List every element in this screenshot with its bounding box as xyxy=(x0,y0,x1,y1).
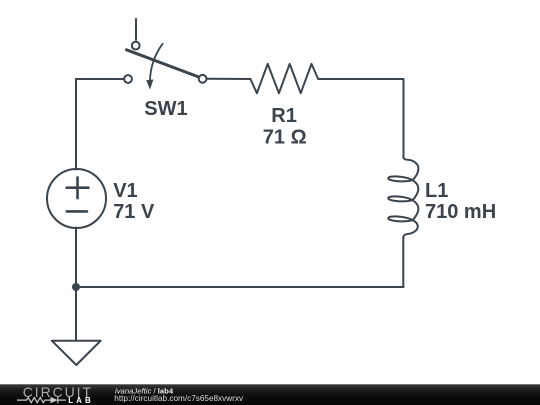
ground xyxy=(52,341,101,365)
wire junction to ground xyxy=(75,287,77,341)
logo squiggle resistor+diode xyxy=(17,397,66,403)
wire switch right to resistor xyxy=(207,78,250,80)
logo diode triangle xyxy=(51,397,58,403)
svg-text:710 mH: 710 mH xyxy=(425,201,496,223)
switch SW1 xyxy=(124,42,206,90)
svg-text:71 V: 71 V xyxy=(113,201,155,223)
wire left vertical to V1 xyxy=(75,79,77,170)
svg-text:71 Ω: 71 Ω xyxy=(263,127,307,149)
footer bar xyxy=(0,384,540,405)
svg-text:V1: V1 xyxy=(113,180,137,202)
wire right vertical to inductor xyxy=(403,79,405,157)
resistor R1 xyxy=(250,64,318,93)
wire switch left to corner xyxy=(76,78,123,80)
wire resistor to top-right corner xyxy=(318,78,403,80)
voltage source V1 xyxy=(47,169,106,228)
wire inductor bottom to corner xyxy=(402,237,404,287)
inductor L1 coil xyxy=(388,156,418,237)
svg-text:http://circuitlab.com/c7s65e8x: http://circuitlab.com/c7s65e8xvwrxv xyxy=(114,394,244,403)
wire top stub above switch xyxy=(135,19,137,40)
svg-text:R1: R1 xyxy=(271,105,297,127)
wire bottom rail xyxy=(76,286,404,288)
wire V1 bottom to junction xyxy=(75,228,77,288)
svg-text:L1: L1 xyxy=(425,180,448,202)
svg-text:LAB: LAB xyxy=(68,396,93,405)
node junction dot xyxy=(72,283,80,291)
svg-text:SW1: SW1 xyxy=(144,98,187,120)
